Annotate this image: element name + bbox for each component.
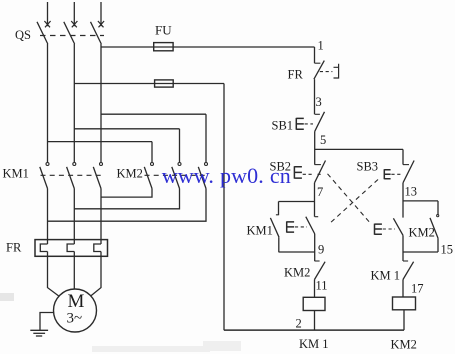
svg-text:11: 11: [316, 279, 328, 293]
svg-text:3~: 3~: [67, 311, 83, 327]
ground symbol: [30, 329, 48, 331]
wire L1 supply drop: [47, 2, 49, 26]
wire to node15: [402, 235, 404, 261]
contactor KM2 pole1 contact: [151, 142, 153, 163]
wire L2 supply drop: [73, 2, 75, 26]
svg-text:KM 1: KM 1: [299, 337, 329, 351]
FR trip symbol: [334, 64, 339, 78]
SB1 actuator link (dashed): [305, 123, 313, 125]
wire KM2 pole2 output to phase B: [74, 189, 179, 209]
contactor KM2 pole3 contact: [205, 114, 207, 162]
contactor KM1 pole2 contact: [73, 163, 76, 166]
contact KM2 aux (NO self-hold): [437, 201, 439, 215]
motor M circle: [54, 289, 97, 332]
wire tap phase C to KM2 pole3: [101, 113, 206, 115]
wire KM2 pole3 output to phase A: [48, 189, 207, 222]
interlock contact KM1 (NC): [403, 260, 408, 262]
wire phase A to motor: [48, 252, 60, 297]
wire fuse FU2 feed (phase B to control return): [74, 83, 224, 85]
svg-text:KM 1: KM 1: [371, 269, 401, 283]
SB2 actuator E: [294, 166, 302, 178]
wire SB3 drop: [402, 149, 404, 164]
wire phase B vertical (QS to KM1 contact): [73, 44, 75, 162]
fuse FU1 body: [154, 43, 173, 51]
wire motor to ground: [40, 313, 54, 331]
switch QS pole 3 blade: [91, 22, 102, 44]
wire coil KM2 to bottom: [403, 310, 405, 330]
wire node1 to node3: [314, 79, 316, 114]
interlock contact KM2 (NC): [315, 260, 320, 262]
svg-text:17: 17: [411, 282, 424, 296]
contact SB3-linked NC (left): [315, 216, 319, 218]
KM2 mechanical link (dashed): [145, 174, 208, 176]
svg-text:SB3: SB3: [357, 160, 379, 174]
svg-text:5: 5: [320, 133, 326, 147]
thermal relay FR box: [35, 240, 108, 257]
wire node5 branch to SB3: [315, 148, 404, 150]
coil KM2: [393, 297, 416, 310]
wire node3 to node5: [314, 131, 316, 164]
right NC actuator E: [375, 224, 382, 235]
relay contact FR (NC): [315, 62, 321, 64]
wire fuse FU1 feed (phase C to control): [101, 46, 315, 48]
svg-text:www. pw0. cn: www. pw0. cn: [162, 163, 291, 188]
wire node9 branch left: [279, 251, 315, 253]
svg-text:FR: FR: [6, 241, 22, 255]
svg-text:2: 2: [296, 317, 302, 331]
FR heater element phase C: [94, 244, 101, 252]
FR heater element phase B: [67, 244, 74, 252]
wire tap phase B to KM2 pole2: [74, 128, 179, 130]
wire tap phase A to KM2 pole1: [48, 141, 153, 143]
wire node13 branch right: [403, 200, 438, 202]
wire phase C vertical (QS to KM1 contact): [100, 44, 102, 162]
svg-text:13: 13: [405, 185, 418, 199]
switch QS pole 1 blade: [37, 22, 48, 44]
svg-text:SB1: SB1: [272, 119, 294, 133]
KM1 mechanical link (dashed): [41, 174, 104, 176]
wire control return vertical: [223, 84, 225, 331]
svg-text:KM1: KM1: [3, 167, 29, 181]
coil KM1: [303, 297, 325, 310]
svg-text:KM2: KM2: [391, 338, 417, 352]
right NC actuator link (dashed): [383, 228, 395, 230]
svg-text:M: M: [68, 291, 85, 312]
contactor KM1 pole1 contact: [46, 163, 49, 166]
fuse FU2 body: [155, 80, 174, 87]
svg-text:KM2: KM2: [284, 266, 310, 280]
left NC actuator link (dashed): [295, 226, 307, 228]
wire control left drop (node 1): [314, 47, 316, 63]
wire phase A vertical (QS to KM1 contact): [47, 44, 49, 162]
contact SB2-linked NC (right): [393, 218, 403, 235]
FR heater element phase A: [40, 244, 47, 252]
wire KM2 pole1 output to phase C: [101, 189, 152, 198]
wire phase C to FR heater: [100, 189, 102, 245]
svg-text:KM2: KM2: [409, 226, 435, 240]
SB3 actuator link (dashed): [391, 173, 401, 175]
wire node15 branch right: [403, 251, 438, 253]
SB1 actuator E: [296, 118, 304, 130]
wire phase A to FR heater: [47, 189, 49, 245]
wire control bottom return: [224, 329, 404, 331]
SB3 actuator E: [384, 169, 390, 179]
QS mechanical link (dashed): [40, 35, 104, 37]
FR trip linkage (dashed): [320, 71, 333, 73]
wire node7 branch left: [279, 201, 315, 203]
linkage SB3 to left NC (dashed diagonal): [329, 180, 379, 225]
wire L3 supply drop: [100, 2, 102, 26]
svg-text:KM2: KM2: [117, 167, 143, 181]
svg-text:FR: FR: [288, 68, 304, 82]
wire phase B to FR heater: [73, 189, 75, 245]
wire phase B to motor: [73, 252, 75, 290]
linkage SB2 to right NC (dashed diagonal): [328, 174, 372, 225]
wire to node9: [314, 234, 316, 261]
contact KM1 aux (NO self-hold): [278, 202, 280, 216]
svg-text:1: 1: [318, 39, 324, 53]
switch QS pole 2 blade: [64, 22, 75, 44]
wire phase C to motor: [90, 252, 101, 297]
wire node5 to node7: [314, 183, 316, 217]
SB2 actuator link (dashed): [303, 173, 323, 175]
contactor KM1 pole3 contact: [100, 163, 103, 166]
pushbutton SB3 (NO start rev): [403, 164, 409, 166]
svg-text:9: 9: [318, 243, 324, 257]
svg-text:7: 7: [317, 185, 323, 199]
wire node17 to coil: [402, 280, 404, 298]
wire node5r to node13: [402, 183, 404, 218]
svg-text:3: 3: [316, 95, 322, 109]
pushbutton SB2 (NO start fwd): [315, 164, 321, 166]
pushbutton SB1 (NC stop): [315, 113, 320, 115]
svg-text:FU: FU: [155, 23, 172, 38]
svg-text:KM1: KM1: [247, 224, 273, 238]
wire node11 to coil: [314, 280, 316, 298]
wire coil KM1 to bottom: [314, 311, 316, 331]
arrow L2: [71, 21, 77, 27]
contactor KM2 pole2 contact: [179, 129, 181, 162]
svg-text:QS: QS: [15, 28, 31, 42]
arrow L3: [98, 21, 104, 27]
svg-text:15: 15: [441, 243, 454, 257]
left NC actuator E: [287, 221, 294, 232]
arrow L1: [44, 21, 50, 27]
